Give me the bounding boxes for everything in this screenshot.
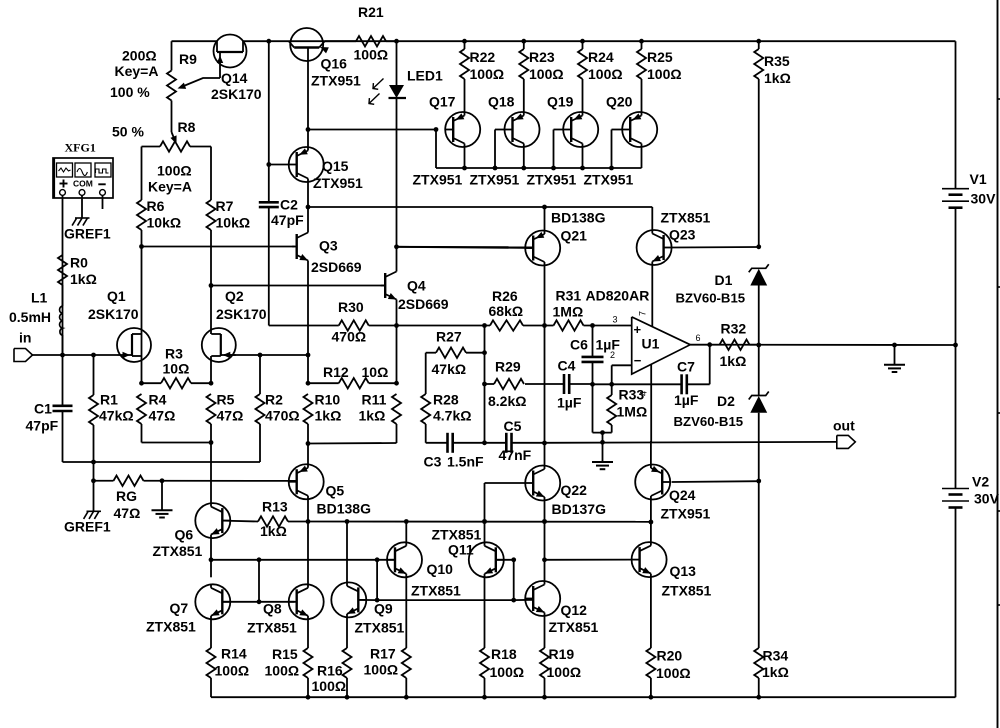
svg-text:R21: R21: [358, 4, 384, 20]
svg-text:R14: R14: [221, 646, 247, 662]
svg-text:R13: R13: [262, 499, 288, 515]
svg-text:100Ω: 100Ω: [547, 664, 582, 680]
svg-text:100Ω: 100Ω: [490, 664, 525, 680]
svg-text:3: 3: [613, 315, 618, 325]
svg-text:GREF1: GREF1: [64, 226, 111, 242]
svg-text:0.5mH: 0.5mH: [9, 309, 51, 325]
svg-text:1µF: 1µF: [674, 392, 699, 408]
svg-text:1kΩ: 1kΩ: [764, 70, 791, 86]
svg-text:Q21: Q21: [561, 228, 588, 244]
svg-text:U1: U1: [642, 336, 660, 352]
svg-text:47kΩ: 47kΩ: [432, 361, 467, 377]
svg-text:D1: D1: [715, 272, 733, 288]
svg-text:68kΩ: 68kΩ: [489, 303, 524, 319]
svg-text:C4: C4: [558, 358, 576, 374]
svg-text:R35: R35: [764, 53, 790, 69]
svg-text:200Ω: 200Ω: [122, 48, 157, 64]
svg-text:100Ω: 100Ω: [157, 163, 192, 179]
svg-text:100 %: 100 %: [110, 84, 150, 100]
svg-text:R1: R1: [100, 392, 118, 408]
svg-text:1kΩ: 1kΩ: [720, 353, 747, 369]
svg-text:Q23: Q23: [669, 227, 696, 243]
svg-text:10Ω: 10Ω: [362, 364, 389, 380]
svg-text:Q8: Q8: [263, 601, 282, 617]
svg-text:Q10: Q10: [427, 561, 454, 577]
svg-text:100Ω: 100Ω: [364, 662, 399, 678]
svg-text:R26: R26: [492, 288, 518, 304]
svg-text:R11: R11: [362, 392, 387, 408]
svg-text:2SD669: 2SD669: [311, 259, 362, 275]
svg-text:Key=A: Key=A: [148, 179, 192, 195]
svg-text:R18: R18: [491, 646, 517, 662]
svg-text:ZTX851: ZTX851: [549, 619, 599, 635]
svg-text:R16: R16: [317, 663, 343, 679]
svg-text:Q20: Q20: [606, 94, 633, 110]
svg-text:ZTX851: ZTX851: [662, 583, 712, 599]
svg-text:L1: L1: [31, 290, 48, 306]
svg-text:1kΩ: 1kΩ: [70, 271, 97, 287]
svg-text:ZTX951: ZTX951: [311, 73, 361, 89]
svg-text:ZTX951: ZTX951: [413, 172, 463, 188]
svg-text:100Ω: 100Ω: [265, 663, 300, 679]
svg-text:ZTX951: ZTX951: [527, 172, 577, 188]
svg-text:100Ω: 100Ω: [647, 66, 682, 82]
svg-text:R23: R23: [529, 49, 555, 65]
svg-text:BD138G: BD138G: [317, 501, 372, 517]
svg-text:C2: C2: [280, 197, 298, 213]
svg-text:2SK170: 2SK170: [216, 306, 267, 322]
svg-text:ZTX851: ZTX851: [247, 620, 297, 636]
svg-text:6: 6: [696, 333, 701, 343]
svg-text:Q6: Q6: [175, 527, 194, 543]
svg-text:R8: R8: [178, 119, 196, 135]
svg-text:BD137G: BD137G: [552, 501, 607, 517]
svg-text:7: 7: [638, 311, 648, 316]
svg-text:R6: R6: [147, 198, 165, 214]
svg-text:Key=A: Key=A: [115, 63, 159, 79]
svg-text:1MΩ: 1MΩ: [553, 304, 584, 320]
svg-text:R30: R30: [338, 299, 364, 315]
svg-text:LED1: LED1: [407, 68, 443, 84]
svg-text:in: in: [19, 330, 31, 346]
svg-text:1µF: 1µF: [596, 337, 621, 353]
svg-text:10kΩ: 10kΩ: [147, 215, 182, 231]
svg-text:ZTX951: ZTX951: [661, 506, 711, 522]
svg-text:R17: R17: [370, 646, 396, 662]
svg-text:Q11: Q11: [448, 542, 474, 558]
svg-text:1µF: 1µF: [557, 395, 582, 411]
svg-text:R9: R9: [179, 51, 197, 67]
svg-text:out: out: [833, 418, 855, 434]
svg-text:Q5: Q5: [326, 483, 345, 499]
svg-text:ZTX851: ZTX851: [153, 543, 203, 559]
svg-text:C3: C3: [424, 454, 442, 470]
svg-text:1.5nF: 1.5nF: [447, 454, 484, 470]
svg-text:C1: C1: [34, 401, 52, 417]
svg-text:Q14: Q14: [221, 70, 248, 86]
svg-text:Q15: Q15: [322, 158, 349, 174]
svg-text:V2: V2: [972, 474, 989, 490]
svg-text:+: +: [634, 322, 642, 337]
svg-text:D2: D2: [717, 393, 735, 409]
svg-text:ZTX851: ZTX851: [146, 619, 196, 635]
svg-text:ZTX851: ZTX851: [355, 620, 405, 636]
svg-text:100Ω: 100Ω: [312, 678, 347, 694]
svg-text:47kΩ: 47kΩ: [99, 408, 134, 424]
svg-text:ZTX951: ZTX951: [470, 172, 520, 188]
svg-text:Q19: Q19: [547, 94, 574, 110]
svg-text:1kΩ: 1kΩ: [260, 523, 287, 539]
svg-text:C5: C5: [504, 418, 522, 434]
svg-text:AD820AR: AD820AR: [586, 288, 650, 304]
svg-text:Q9: Q9: [374, 601, 393, 617]
svg-text:R28: R28: [433, 392, 459, 408]
svg-text:Q4: Q4: [407, 278, 426, 294]
svg-text:50 %: 50 %: [112, 124, 144, 140]
svg-text:100Ω: 100Ω: [354, 47, 389, 63]
svg-text:C6: C6: [570, 337, 588, 353]
svg-text:2SK170: 2SK170: [211, 86, 262, 102]
svg-text:470Ω: 470Ω: [265, 408, 300, 424]
svg-text:47pF: 47pF: [271, 212, 304, 228]
svg-text:R10: R10: [315, 392, 341, 408]
svg-text:R33: R33: [619, 387, 645, 403]
svg-text:4.7kΩ: 4.7kΩ: [433, 408, 471, 424]
svg-text:R0: R0: [70, 255, 88, 271]
svg-text:1kΩ: 1kΩ: [359, 408, 386, 424]
svg-text:Q24: Q24: [669, 487, 696, 503]
svg-text:1kΩ: 1kΩ: [762, 664, 789, 680]
svg-text:Q3: Q3: [319, 238, 338, 254]
svg-text:Q7: Q7: [170, 600, 189, 616]
svg-text:C7: C7: [677, 359, 695, 375]
svg-text:R31: R31: [556, 288, 582, 304]
svg-text:47pF: 47pF: [26, 418, 59, 434]
svg-text:1MΩ: 1MΩ: [617, 404, 648, 420]
svg-text:R2: R2: [265, 392, 283, 408]
svg-text:COM: COM: [73, 179, 93, 189]
svg-text:XFG1: XFG1: [65, 141, 96, 155]
svg-text:30V: 30V: [974, 491, 1000, 507]
svg-text:47Ω: 47Ω: [149, 408, 176, 424]
svg-text:Q2: Q2: [225, 288, 244, 304]
svg-text:−: −: [634, 353, 642, 368]
svg-text:100Ω: 100Ω: [215, 663, 250, 679]
svg-text:R27: R27: [436, 329, 462, 345]
svg-text:Q18: Q18: [488, 94, 515, 110]
svg-text:R34: R34: [763, 648, 789, 664]
svg-text:10Ω: 10Ω: [163, 361, 190, 377]
svg-text:ZTX851: ZTX851: [411, 583, 461, 599]
svg-text:2SD669: 2SD669: [398, 296, 449, 312]
svg-text:R29: R29: [495, 359, 521, 375]
svg-text:R3: R3: [165, 346, 183, 362]
svg-text:47nF: 47nF: [499, 447, 532, 463]
svg-text:8.2kΩ: 8.2kΩ: [488, 393, 526, 409]
svg-text:R7: R7: [216, 198, 234, 214]
svg-text:BD138G: BD138G: [551, 210, 606, 226]
svg-text:R22: R22: [470, 49, 496, 65]
svg-text:R20: R20: [657, 648, 683, 664]
svg-text:100Ω: 100Ω: [529, 66, 564, 82]
svg-text:GREF1: GREF1: [64, 519, 111, 535]
svg-text:1kΩ: 1kΩ: [315, 408, 342, 424]
svg-text:R4: R4: [149, 392, 167, 408]
svg-text:ZTX951: ZTX951: [584, 172, 634, 188]
svg-text:Q13: Q13: [670, 563, 697, 579]
svg-text:R5: R5: [217, 392, 235, 408]
svg-text:30V: 30V: [971, 191, 997, 207]
svg-text:Q12: Q12: [561, 602, 588, 618]
svg-text:47Ω: 47Ω: [114, 505, 141, 521]
svg-text:ZTX851: ZTX851: [432, 527, 482, 543]
svg-text:Q16: Q16: [321, 56, 348, 72]
svg-text:R12: R12: [323, 364, 349, 380]
svg-text:BZV60-B15: BZV60-B15: [674, 414, 744, 429]
svg-text:100Ω: 100Ω: [588, 66, 623, 82]
svg-text:V1: V1: [970, 171, 987, 187]
svg-text:100Ω: 100Ω: [656, 665, 691, 681]
svg-text:2SK170: 2SK170: [88, 306, 139, 322]
svg-text:ZTX951: ZTX951: [313, 175, 363, 191]
svg-text:470Ω: 470Ω: [332, 329, 367, 345]
svg-text:10kΩ: 10kΩ: [216, 215, 251, 231]
svg-text:100Ω: 100Ω: [470, 66, 505, 82]
svg-text:RG: RG: [116, 488, 137, 504]
svg-text:47Ω: 47Ω: [217, 408, 244, 424]
svg-text:Q22: Q22: [561, 482, 588, 498]
svg-text:R32: R32: [721, 321, 747, 337]
svg-text:BZV60-B15: BZV60-B15: [676, 291, 746, 306]
svg-text:Q1: Q1: [107, 288, 126, 304]
svg-text:R25: R25: [647, 49, 673, 65]
svg-text:R19: R19: [549, 646, 575, 662]
svg-text:Q17: Q17: [429, 94, 456, 110]
svg-text:R24: R24: [588, 49, 614, 65]
svg-text:ZTX851: ZTX851: [661, 210, 711, 226]
svg-text:R15: R15: [272, 646, 298, 662]
